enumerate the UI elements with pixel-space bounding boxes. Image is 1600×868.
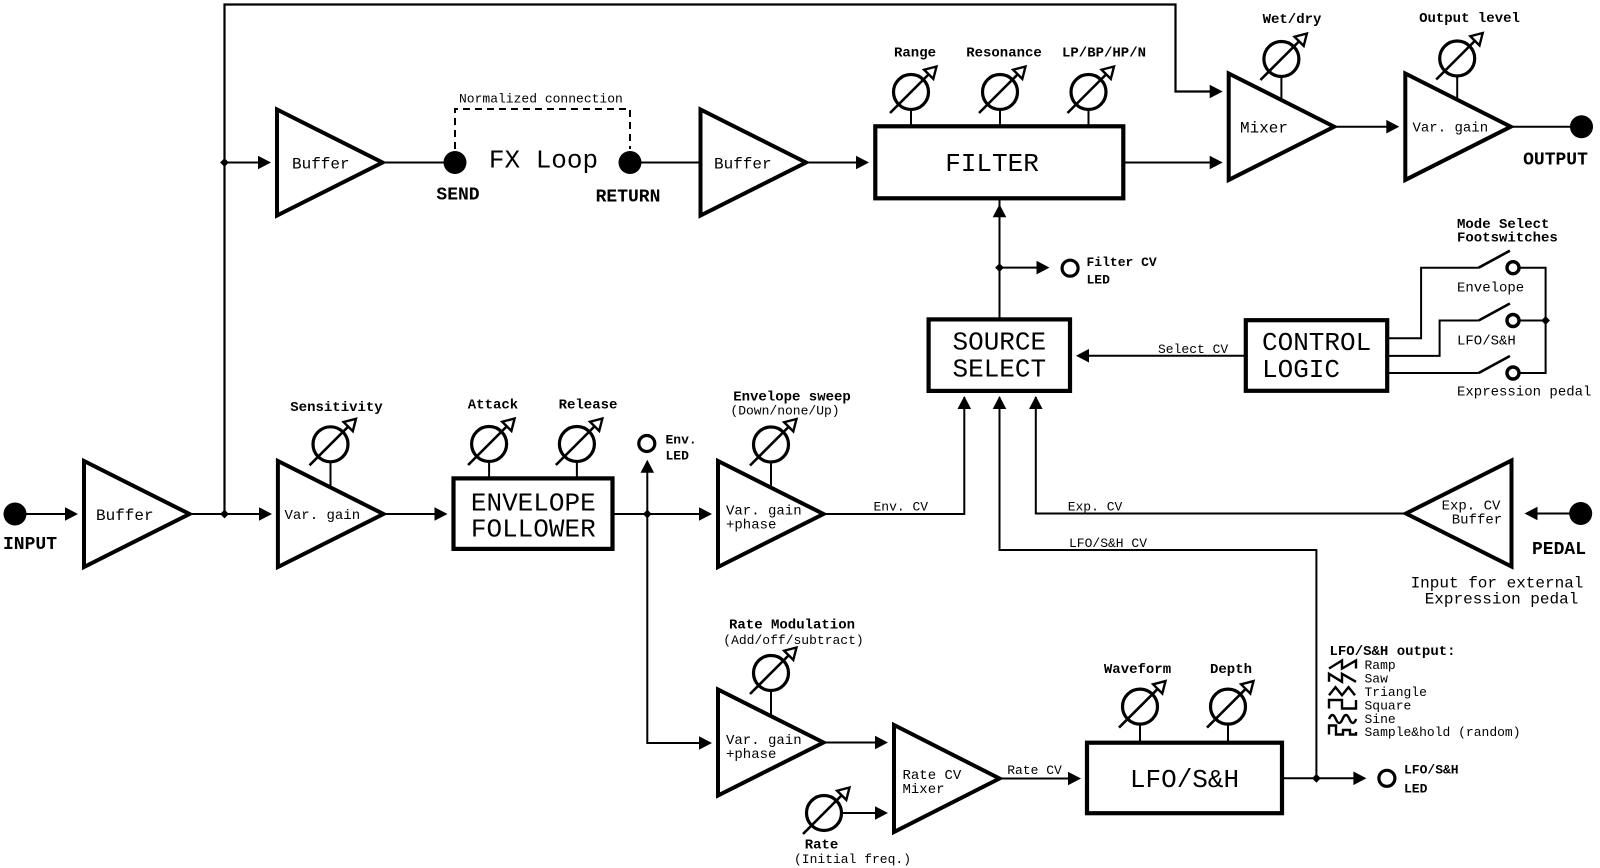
- svg-text:Env. CV: Env. CV: [873, 500, 928, 515]
- waveform icon Triangle: [1329, 687, 1355, 695]
- svg-text:Sensitivity: Sensitivity: [290, 400, 383, 416]
- waveform icon Sample&hold: [1329, 726, 1356, 735]
- svg-text:Buffer: Buffer: [714, 156, 772, 174]
- pot Rate (initial freq): [807, 796, 842, 831]
- svg-text:SELECT: SELECT: [952, 354, 1046, 384]
- svg-text:INPUT: INPUT: [3, 535, 57, 555]
- wire - Exp. CV from pedal buffer to source select: [1036, 397, 1406, 514]
- wire - RETURN jack to buffer U3: [641, 162, 701, 164]
- wire - buffer U2 output to SEND jack: [383, 162, 446, 164]
- node RETURN jack: [619, 151, 642, 174]
- filter block FILTER: [875, 126, 1123, 198]
- svg-text:+phase: +phase: [726, 518, 776, 534]
- wire - feedback rail from input junction over the top to mixer: [225, 5, 1216, 515]
- pot Depth: [1211, 689, 1246, 724]
- svg-text:CONTROL: CONTROL: [1262, 328, 1371, 358]
- svg-text:LFO/S&H: LFO/S&H: [1457, 334, 1516, 350]
- wire - control logic to expression pedal footswitch: [1387, 372, 1479, 374]
- wire - LFO output junction: [1282, 777, 1358, 779]
- waveform icon Square: [1329, 700, 1356, 709]
- buffer U2 (FX loop send buffer): [277, 110, 383, 216]
- waveform icon Sine: [1329, 715, 1356, 723]
- svg-text:Filter CV: Filter CV: [1087, 255, 1157, 270]
- buffer U3 (FX loop return buffer): [701, 110, 807, 216]
- node SEND jack: [444, 151, 467, 174]
- wire - U8 output to rate cv mixer: [824, 742, 876, 744]
- svg-text:Var. gain: Var. gain: [285, 508, 361, 524]
- node INPUT jack: [4, 503, 27, 526]
- svg-text:Envelope: Envelope: [1457, 281, 1524, 297]
- pot Resonance: [983, 75, 1018, 110]
- wire - buffer U1 output through junction to var gain U6: [190, 513, 266, 515]
- var gain amplifier U5 (output level): [1405, 73, 1511, 180]
- svg-text:Rate Modulation: Rate Modulation: [729, 618, 855, 634]
- svg-text:Exp. CV: Exp. CV: [1068, 500, 1123, 515]
- svg-text:Buffer: Buffer: [292, 156, 350, 174]
- svg-text:LED: LED: [1087, 273, 1111, 288]
- wire - footswitch common rail: [1519, 268, 1546, 373]
- pot Attack: [472, 427, 507, 462]
- svg-text:FOLLOWER: FOLLOWER: [471, 514, 596, 544]
- waveform icon Ramp: [1329, 661, 1356, 669]
- footswitch SW3 Expression pedal: [1479, 356, 1510, 373]
- node PEDAL jack: [1569, 502, 1592, 525]
- led LFO/S&H: [1379, 770, 1395, 786]
- wire - FILTER output to mixer with arrow: [1123, 162, 1215, 164]
- svg-text:Output level: Output level: [1419, 11, 1520, 27]
- svg-text:FILTER: FILTER: [945, 149, 1039, 179]
- waveform icon Saw: [1329, 674, 1356, 682]
- svg-text:Select CV: Select CV: [1158, 342, 1228, 357]
- pot Range: [894, 75, 929, 110]
- svg-text:(Down/none/Up): (Down/none/Up): [730, 403, 839, 418]
- pot Release: [559, 427, 594, 462]
- var gain +phase amplifier U8 (rate modulation): [718, 690, 824, 796]
- svg-text:Buffer: Buffer: [96, 507, 154, 525]
- svg-text:RETURN: RETURN: [596, 188, 661, 208]
- svg-text:LED: LED: [1404, 782, 1428, 797]
- wire - INPUT jack to buffer U1: [26, 513, 65, 515]
- envelope follower block: [454, 478, 613, 549]
- svg-text:Mixer: Mixer: [903, 782, 945, 798]
- wire - junction down to rate modulation var gain: [647, 514, 705, 743]
- svg-text:Depth: Depth: [1210, 662, 1252, 678]
- svg-text:Attack: Attack: [468, 398, 518, 414]
- svg-text:Footswitches: Footswitches: [1457, 231, 1558, 247]
- wire - LFO/S&H CV up to source select: [1000, 397, 1317, 778]
- wire - control logic to envelope footswitch: [1387, 268, 1479, 339]
- wire - filter CV LED branch: [1000, 267, 1043, 269]
- svg-text:Expression pedal: Expression pedal: [1457, 385, 1591, 401]
- svg-text:Wet/dry: Wet/dry: [1263, 12, 1322, 28]
- svg-text:(Add/off/subtract): (Add/off/subtract): [723, 633, 863, 648]
- exp cv buffer U10 (pedal input): [1406, 461, 1512, 567]
- wire - junction on left rail feeding FX loop buffer: [220, 158, 229, 167]
- wire - source select to filter CV line with junction: [999, 198, 1001, 319]
- wire - Rate CV into LFO: [1000, 778, 1075, 780]
- svg-text:Expression pedal: Expression pedal: [1425, 591, 1579, 609]
- mixer U4: [1229, 73, 1335, 180]
- wire - var gain U6 to envelope follower: [383, 513, 434, 515]
- pot Output level: [1440, 41, 1475, 76]
- svg-text:Waveform: Waveform: [1104, 662, 1171, 678]
- svg-text:Release: Release: [559, 398, 618, 414]
- led Filter CV: [1062, 260, 1078, 276]
- svg-text:SOURCE: SOURCE: [952, 327, 1046, 357]
- arrow - top rail into mixer: [1210, 85, 1223, 99]
- control logic block: [1246, 320, 1387, 391]
- svg-text:LP/BP/HP/N: LP/BP/HP/N: [1062, 46, 1146, 62]
- svg-text:Sample&hold (random): Sample&hold (random): [1365, 725, 1521, 740]
- wire - mixer output to output var gain: [1334, 126, 1392, 128]
- rate cv mixer U9: [894, 725, 1000, 832]
- wire - rate pot to rate cv mixer: [842, 812, 876, 814]
- source select block: [929, 319, 1070, 391]
- svg-text:Rate CV: Rate CV: [1007, 763, 1062, 778]
- buffer U1 (input buffer): [84, 461, 190, 567]
- wire - Select CV from control logic to source select: [1083, 355, 1246, 357]
- led ENV with arrow: [646, 472, 648, 514]
- svg-text:Env.: Env.: [666, 433, 697, 448]
- pot Rate Modulation: [754, 656, 789, 691]
- pot Envelope sweep: [754, 427, 789, 462]
- wire - buffer U3 to FILTER with arrow: [806, 162, 856, 164]
- svg-text:FX Loop: FX Loop: [489, 146, 598, 176]
- svg-text:+phase: +phase: [726, 747, 776, 763]
- svg-text:Var. gain: Var. gain: [1413, 121, 1489, 137]
- node OUTPUT jack: [1570, 115, 1593, 138]
- svg-text:Buffer: Buffer: [1452, 513, 1502, 529]
- svg-text:SEND: SEND: [436, 186, 479, 206]
- pot Waveform: [1123, 689, 1158, 724]
- wire - var gain U5 to OUTPUT jack: [1511, 126, 1571, 128]
- wire - control logic to LFO/S&H footswitch: [1387, 321, 1479, 356]
- svg-text:(Initial freq.): (Initial freq.): [794, 852, 911, 867]
- footswitch SW1 Envelope: [1479, 251, 1510, 268]
- svg-text:LED: LED: [666, 449, 690, 464]
- svg-text:LFO/S&H: LFO/S&H: [1404, 763, 1459, 778]
- var gain +phase amplifier U7 (envelope sweep): [718, 461, 824, 567]
- svg-text:PEDAL: PEDAL: [1532, 540, 1586, 560]
- var gain amplifier U6 (sensitivity): [278, 461, 384, 567]
- svg-text:OUTPUT: OUTPUT: [1523, 151, 1588, 171]
- wire - envelope follower output, junction node: [613, 513, 706, 515]
- wire - Env. CV from U7 to source select: [824, 397, 965, 514]
- svg-text:LOGIC: LOGIC: [1262, 355, 1340, 385]
- svg-text:LFO/S&H CV: LFO/S&H CV: [1069, 536, 1147, 551]
- svg-text:Range: Range: [894, 46, 936, 62]
- wire - normalized connection (dashed): [455, 109, 630, 149]
- arrow into FX loop send buffer: [258, 156, 271, 170]
- pot Sensitivity: [313, 427, 348, 462]
- svg-text:Resonance: Resonance: [966, 46, 1042, 62]
- svg-text:Normalized connection: Normalized connection: [459, 92, 623, 107]
- pot Wet/dry: [1264, 42, 1299, 77]
- wire - PEDAL jack to exp cv buffer: [1531, 513, 1570, 515]
- lfo block LFO/S&H: [1087, 743, 1282, 814]
- svg-text:LFO/S&H: LFO/S&H: [1130, 765, 1239, 795]
- footswitch SW2 LFO/S&H: [1479, 304, 1510, 321]
- svg-text:Mixer: Mixer: [1240, 120, 1288, 138]
- pot LP/BP/HP/N: [1071, 75, 1106, 110]
